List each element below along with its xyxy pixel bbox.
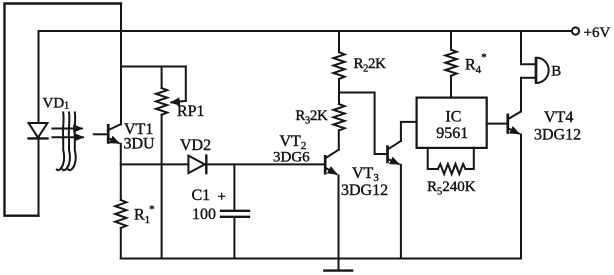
light arrow 2 — [53, 136, 83, 138]
wire: IC output to VT4 base — [487, 123, 507, 125]
svg-text:R5240K: R5240K — [427, 179, 476, 197]
transistor VT2 — [324, 155, 327, 175]
svg-text:+6V: +6V — [584, 25, 611, 41]
transistor VT3 — [386, 145, 389, 163]
diode VD2 — [188, 156, 204, 174]
IC U1 9561 box — [417, 98, 487, 148]
buzzer B — [521, 31, 535, 64]
light rays (wavy lines) — [57, 113, 64, 171]
svg-text:C1: C1 — [192, 187, 211, 204]
svg-text:+: + — [218, 189, 226, 205]
svg-text:R22K: R22K — [354, 56, 387, 74]
svg-text:9561: 9561 — [436, 125, 468, 142]
wire: outer left loop — [5, 4, 122, 216]
terminal +6V circle — [572, 27, 579, 34]
svg-text:VD2: VD2 — [180, 137, 211, 154]
svg-text:3DG12: 3DG12 — [534, 126, 581, 143]
wire: node horizontal to VD2 and VT2 base — [121, 163, 189, 165]
wire: VT1 emitter down to node — [120, 144, 122, 200]
wire: bottom rail — [121, 258, 521, 260]
svg-text:100: 100 — [192, 206, 216, 223]
resistor R5 (below IC) — [428, 148, 438, 169]
svg-text:B: B — [551, 64, 561, 80]
svg-text:3DG12: 3DG12 — [341, 182, 388, 199]
svg-text:3DG6: 3DG6 — [273, 149, 310, 165]
wire: vertical from top box down to VT1 collector — [120, 4, 122, 125]
diode VD1 — [38, 31, 40, 123]
light arrow 1 — [53, 128, 82, 130]
wire: R2/R3 node to VT3 base — [339, 93, 386, 155]
svg-text:3DU: 3DU — [124, 136, 156, 153]
resistor R4 — [450, 31, 452, 50]
ground — [338, 259, 340, 271]
svg-text:IC: IC — [445, 108, 461, 125]
capacitor C1 — [233, 164, 235, 210]
svg-text:RP1: RP1 — [177, 103, 205, 120]
resistor R1 — [115, 200, 126, 228]
svg-text:VT4: VT4 — [544, 109, 573, 126]
RP1 wiper arrow — [185, 67, 187, 101]
wire: RP1 top horizontal — [121, 66, 186, 68]
transistor VT1 (3DU phototransistor) — [94, 133, 107, 135]
transistor VT4 — [506, 114, 509, 134]
svg-text:R32K: R32K — [295, 108, 328, 126]
resistor R3 — [333, 104, 344, 130]
potentiometer RP1 — [161, 67, 163, 89]
resistor R2 — [338, 31, 340, 52]
wire: +6V supply rail — [39, 30, 572, 32]
